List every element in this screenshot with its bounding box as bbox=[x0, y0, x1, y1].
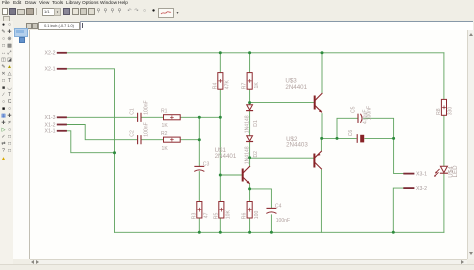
label R3 name bbox=[191, 213, 197, 220]
label C5 value 100nF bbox=[366, 106, 372, 120]
svg-text:1K: 1K bbox=[162, 123, 169, 129]
wire: right column to R8 top bbox=[443, 53, 445, 100]
svg-text:1N4148: 1N4148 bbox=[245, 115, 251, 133]
label U$3 value 2N4401 bbox=[285, 84, 307, 91]
junction: R6 / ground rail bbox=[248, 231, 251, 234]
svg-text:100nF: 100nF bbox=[276, 218, 290, 224]
label R2 value 1K bbox=[162, 146, 169, 152]
wire: U3 emitter down to emitter node bbox=[321, 114, 323, 139]
wire: node A vertical rail through C3 and R3 bbox=[198, 117, 200, 232]
capacitor C3 bbox=[195, 166, 204, 171]
menu bar bbox=[0, 0, 474, 7]
wire: C5 branch loop bbox=[337, 118, 394, 138]
svg-text:X2-2: X2-2 bbox=[45, 51, 56, 57]
label U$4 name bbox=[448, 166, 455, 178]
label U$4 value LED bbox=[452, 165, 459, 178]
label C1 name bbox=[129, 108, 135, 115]
svg-text:C2: C2 bbox=[129, 130, 135, 137]
wire: X1-2 bend to C2 and R2 bbox=[66, 125, 199, 140]
label R7 value 1K bbox=[254, 82, 260, 89]
svg-text:C3: C3 bbox=[203, 162, 210, 168]
pin X3-1 bbox=[404, 172, 427, 178]
svg-text:1N4148: 1N4148 bbox=[245, 146, 251, 164]
pin X1-1 bbox=[45, 129, 66, 135]
pin X1-2 bbox=[45, 122, 66, 128]
label C5 name bbox=[350, 106, 356, 113]
label U$2 name bbox=[286, 136, 298, 143]
label D2 name bbox=[253, 151, 259, 158]
wire: U3 base connection bbox=[250, 102, 314, 104]
junction: R2 output / node A bbox=[198, 138, 201, 141]
wire: U1 emitter node to R6 and C4 bbox=[250, 189, 272, 232]
svg-text:1K: 1K bbox=[162, 146, 169, 152]
capacitor C6 electrolytic bbox=[357, 135, 364, 143]
label C4 value 100nF bbox=[276, 218, 290, 224]
resistor R7 bbox=[247, 73, 252, 90]
junction: R1 wire / node B bbox=[219, 116, 222, 119]
wire: bottom ground rail bbox=[115, 231, 444, 233]
wire: X2-1 net horizontal and long vertical bbox=[66, 69, 115, 233]
resistor R6 bbox=[247, 202, 252, 219]
label U$1 name bbox=[215, 147, 227, 154]
junction: C5/C6 right node D bbox=[392, 137, 395, 140]
junction: R7 / D1 / U$3 base bbox=[248, 101, 251, 104]
transistor U$3 NPN 2N4401 bbox=[314, 93, 322, 112]
resistor R3 bbox=[197, 202, 202, 219]
wire: U2 base connection bbox=[250, 157, 314, 159]
svg-text:X1-1: X1-1 bbox=[45, 129, 56, 135]
capacitor C1 bbox=[138, 113, 141, 121]
resistor R1 bbox=[164, 115, 181, 120]
wire: emitter node horizontal through C6 bbox=[321, 137, 393, 139]
label R8 value 330 bbox=[448, 107, 454, 116]
svg-text:X3-2: X3-2 bbox=[416, 186, 427, 192]
resistor R2 bbox=[164, 137, 181, 142]
junction: R1 output / node A bbox=[198, 116, 201, 119]
sheets panel selection bbox=[0, 0, 1, 1]
svg-text:X1-3: X1-3 bbox=[45, 115, 56, 121]
svg-text:X3-1: X3-1 bbox=[416, 172, 427, 178]
label R6 value 100 bbox=[254, 211, 260, 220]
svg-text:2N4401: 2N4401 bbox=[215, 153, 237, 160]
svg-text:C4: C4 bbox=[275, 203, 282, 209]
svg-text:R4: R4 bbox=[212, 83, 218, 90]
junction: X3-2 / ground rail bbox=[392, 231, 395, 234]
svg-text:LED: LED bbox=[452, 165, 459, 178]
diode D1 bbox=[247, 105, 253, 111]
label R4 value 47K bbox=[225, 80, 231, 90]
svg-text:100nF: 100nF bbox=[143, 122, 149, 136]
wire: node D down to X3-1 pin bbox=[394, 138, 405, 173]
svg-text:330: 330 bbox=[448, 107, 454, 116]
label R6 name bbox=[242, 213, 248, 220]
label C3 name bbox=[203, 162, 210, 168]
label C1 value 100nF bbox=[143, 100, 149, 114]
canvas bbox=[30, 30, 467, 259]
junction: R4 column / top rail bbox=[219, 51, 222, 54]
junction: U$1 emitter / R6 / C4 wire bbox=[248, 187, 251, 190]
svg-text:47: 47 bbox=[204, 212, 210, 218]
vertical scrollbar arrows bbox=[469, 33, 473, 36]
label R5 value 10K bbox=[226, 210, 232, 220]
label R4 name bbox=[212, 83, 218, 90]
resistor R8 bbox=[441, 99, 446, 115]
svg-text:10K: 10K bbox=[226, 210, 232, 220]
svg-text:2N4403: 2N4403 bbox=[286, 142, 308, 149]
label R1 value 1K bbox=[162, 123, 169, 129]
label R7 name bbox=[242, 83, 248, 90]
capacitor C5 bbox=[358, 114, 362, 122]
label C2 name bbox=[129, 130, 135, 137]
label C6 name bbox=[348, 130, 354, 137]
svg-text:100: 100 bbox=[254, 211, 260, 220]
pin X1-3 bbox=[45, 115, 66, 121]
junction: C4 / ground rail bbox=[270, 231, 273, 234]
junction: R3 / ground rail bbox=[198, 231, 201, 234]
svg-text:D2: D2 bbox=[253, 151, 259, 158]
svg-text:C5: C5 bbox=[350, 106, 356, 113]
junction: U$3 collector / top rail bbox=[321, 51, 324, 54]
svg-text:X1-2: X1-2 bbox=[45, 122, 56, 128]
transistor U$2 PNP 2N4403 bbox=[313, 151, 321, 169]
junction: R5 / ground rail bbox=[219, 231, 222, 234]
wire: X3-2 pin down to ground rail bbox=[393, 188, 404, 232]
label D1 name bbox=[253, 120, 259, 127]
svg-text:R3: R3 bbox=[191, 213, 197, 220]
pin X2-1 bbox=[45, 67, 66, 73]
svg-text:D1: D1 bbox=[253, 120, 259, 127]
resistor R5 bbox=[219, 202, 224, 219]
svg-text:47K: 47K bbox=[225, 80, 231, 90]
label R8 name bbox=[436, 108, 442, 115]
pin X3-2 bbox=[404, 186, 427, 192]
wire: node B vertical rail R4 R5 bbox=[219, 53, 221, 233]
capacitor C2 bbox=[138, 136, 141, 144]
resistor R4 bbox=[218, 73, 223, 90]
wire: X1-3 row through C1 and R1 bbox=[66, 116, 220, 118]
label U$2 value 2N4403 bbox=[286, 142, 308, 149]
svg-text:1K: 1K bbox=[254, 82, 260, 89]
pin X2-2 bbox=[45, 51, 66, 57]
svg-text:R7: R7 bbox=[242, 83, 248, 90]
junction: R7 column / top rail bbox=[248, 51, 251, 54]
wire: X1-1 bend to X2-1 net bbox=[66, 131, 115, 153]
svg-text:R1: R1 bbox=[161, 109, 168, 115]
left command palette bbox=[0, 21, 13, 264]
wire: U3 collector to top rail bbox=[321, 53, 323, 93]
wire: top supply rail bbox=[66, 52, 444, 54]
svg-text:R2: R2 bbox=[161, 131, 168, 137]
transistor U$1 NPN 2N4401 bbox=[242, 166, 250, 184]
svg-text:C1: C1 bbox=[129, 108, 135, 115]
main toolbar bbox=[0, 0, 474, 1]
label D1 value 1N4148 bbox=[245, 115, 251, 133]
svg-text:470uF: 470uF bbox=[363, 110, 369, 124]
label D2 value 1N4148 bbox=[245, 146, 251, 164]
junction: D2 / U$1 collector / U$2 base bbox=[248, 156, 251, 159]
junction: C5 branch tap bbox=[336, 137, 339, 140]
label R2 name bbox=[161, 131, 168, 137]
label R3 value 47 bbox=[204, 212, 210, 218]
wire: R8 bottom to LED top bbox=[443, 115, 445, 166]
capacitor C4 bbox=[267, 208, 276, 213]
label R5 name bbox=[213, 213, 219, 220]
diode D2 bbox=[247, 136, 253, 142]
label U$3 name bbox=[285, 77, 297, 84]
junction: U$1 base / node B bbox=[219, 174, 222, 177]
label U$1 value 2N4401 bbox=[215, 153, 237, 160]
coordinate row bbox=[0, 0, 474, 1]
junction: U$3 emitter / U$2 emitter node bbox=[320, 137, 323, 140]
svg-text:R6: R6 bbox=[242, 213, 248, 220]
junction: X1-1 wire / X2-1 net bbox=[113, 151, 116, 154]
label R1 name bbox=[161, 109, 168, 115]
wire: node C vertical rail R7 D1 D2 bbox=[249, 53, 251, 233]
label C4 name bbox=[275, 203, 282, 209]
wire: U2 collector down to ground rail bbox=[320, 170, 322, 232]
svg-text:2N4401: 2N4401 bbox=[285, 84, 307, 91]
wire: U2 emitter up to node bbox=[320, 138, 322, 150]
wire: LED bottom to ground rail bbox=[443, 174, 445, 233]
label C6 value 470uF bbox=[363, 110, 369, 124]
svg-text:100nF: 100nF bbox=[143, 100, 149, 114]
horizontal scrollbar arrows bbox=[31, 260, 34, 264]
svg-text:R5: R5 bbox=[213, 213, 219, 220]
svg-text:R8: R8 bbox=[436, 108, 442, 115]
wire: U1 base connection bbox=[220, 174, 241, 176]
label C2 value 100nF bbox=[143, 122, 149, 136]
svg-text:C6: C6 bbox=[348, 130, 354, 137]
parameter row icon bbox=[0, 0, 474, 1]
LED U$4 bbox=[434, 166, 447, 177]
svg-text:X2-1: X2-1 bbox=[45, 67, 56, 73]
